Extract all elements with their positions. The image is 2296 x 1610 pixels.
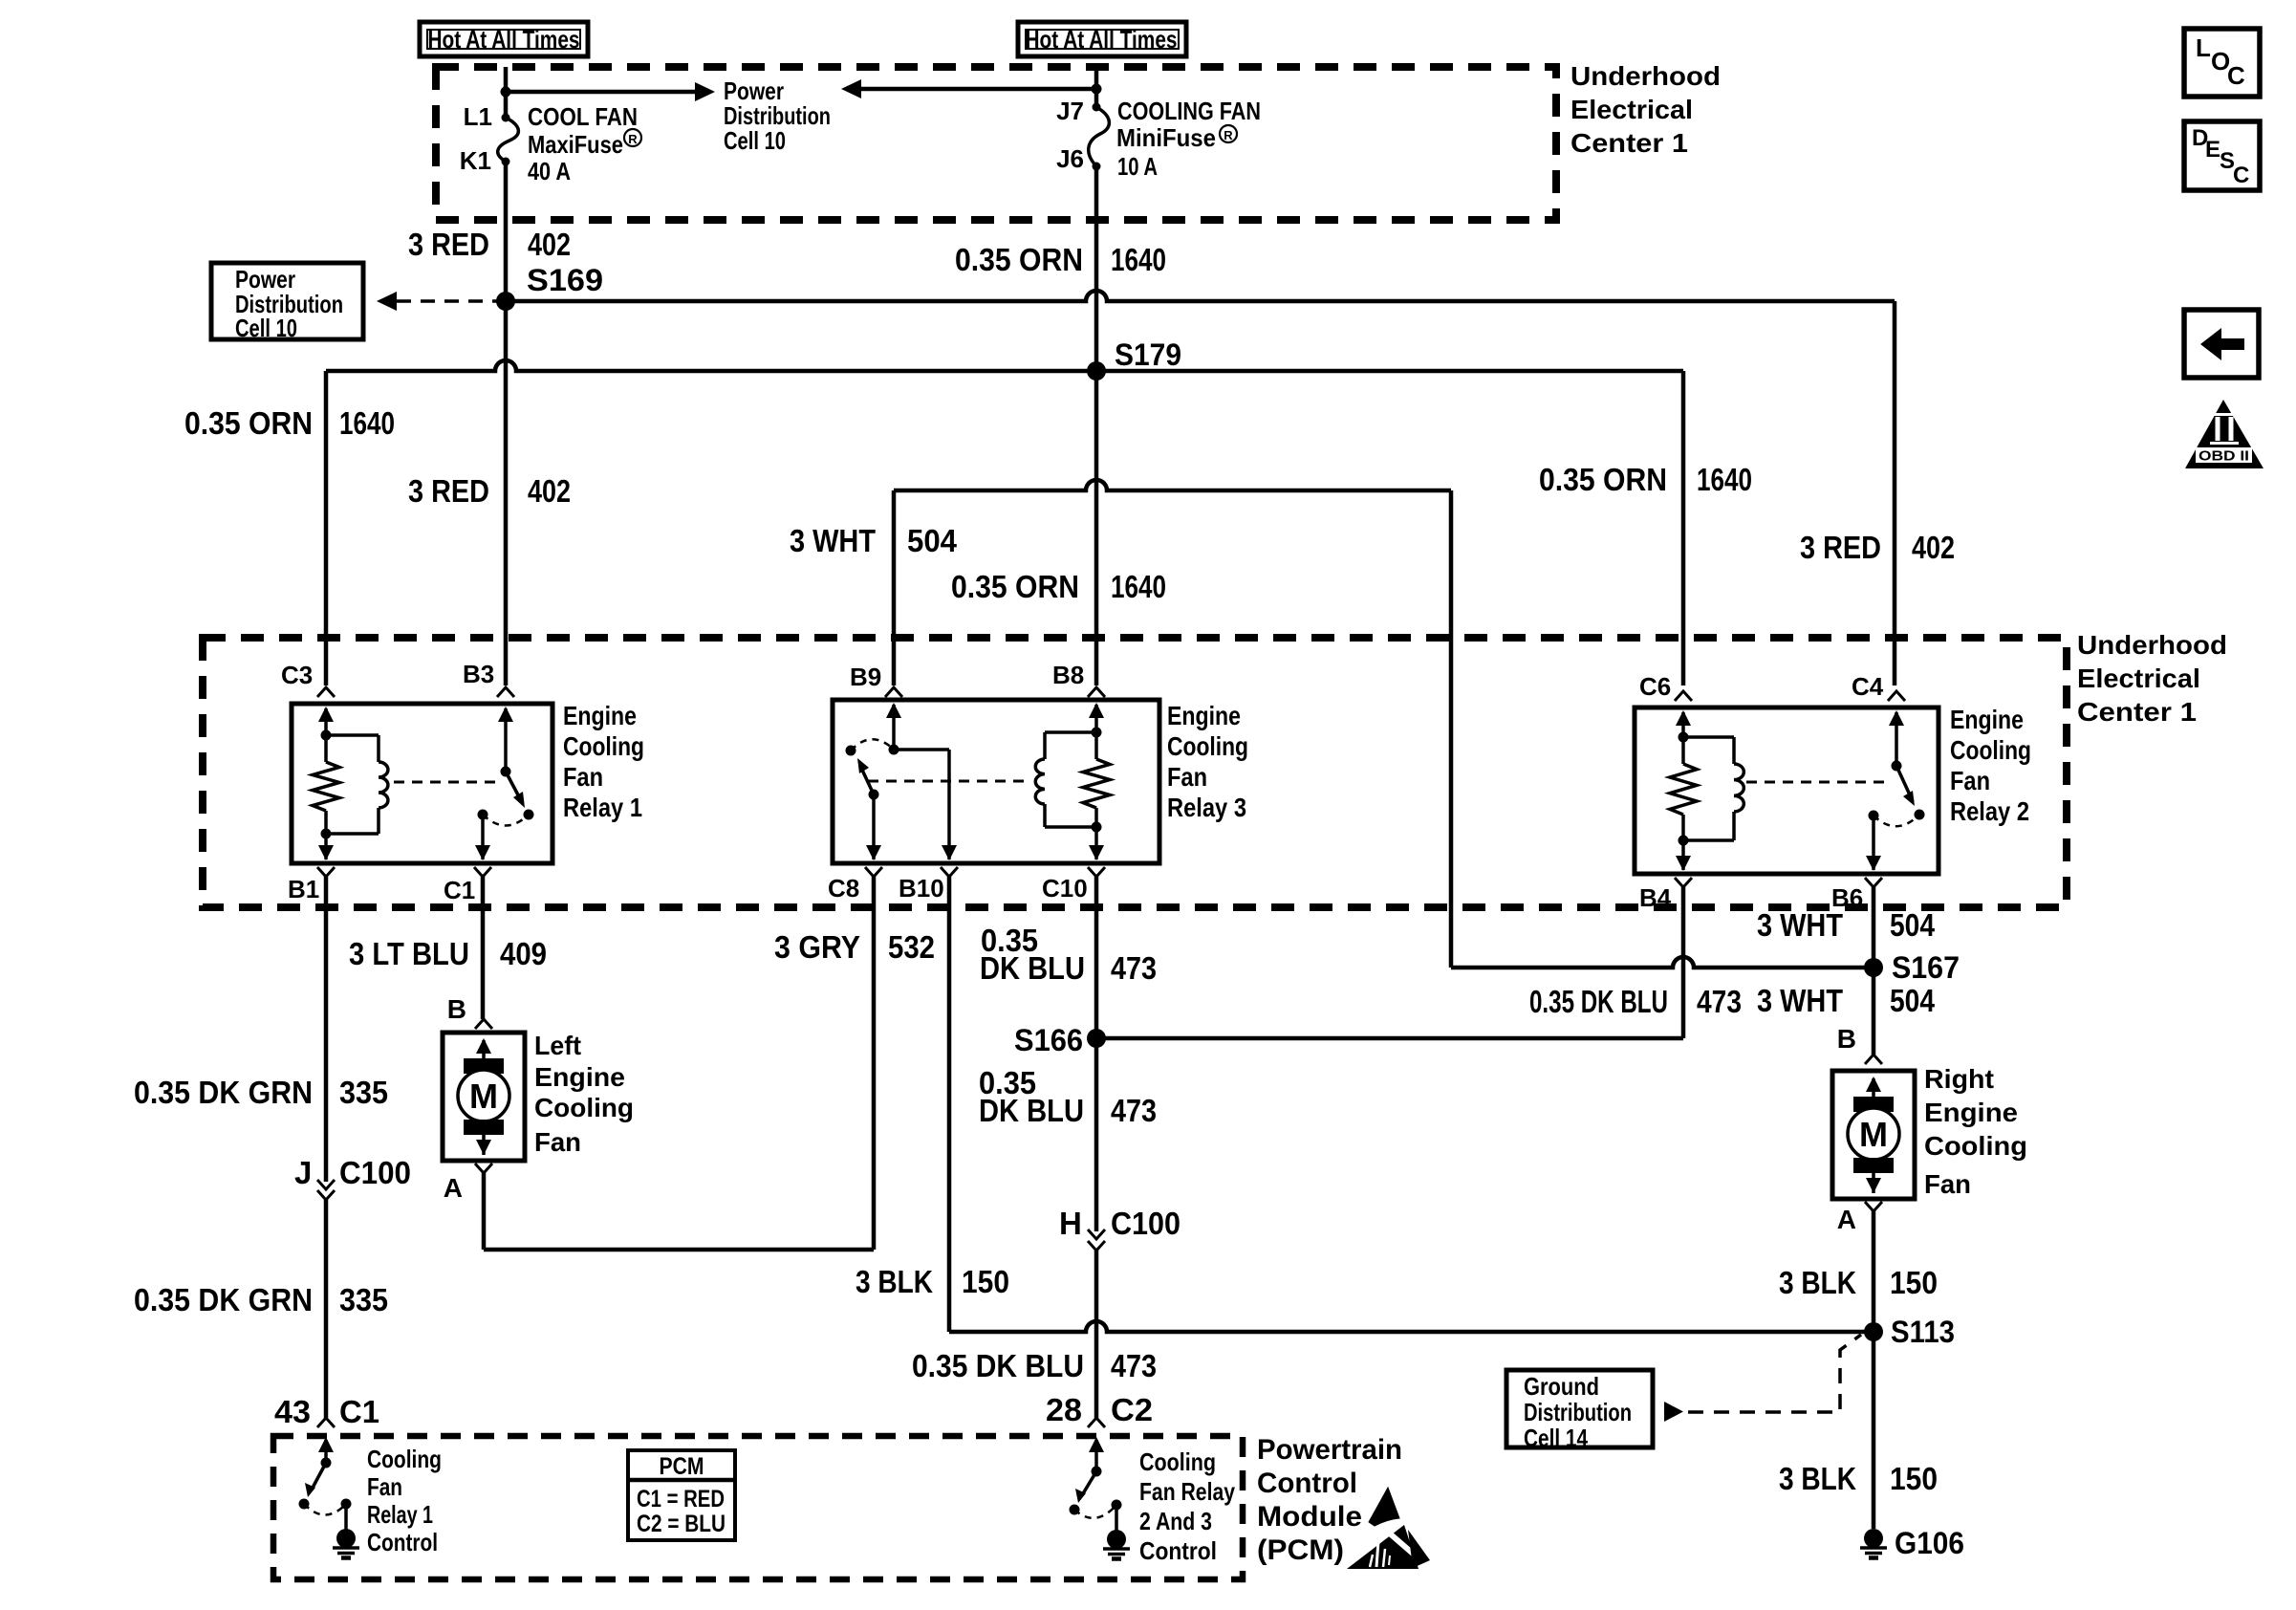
svg-text:C4: C4 (1852, 672, 1884, 701)
svg-text:Center 1: Center 1 (2077, 697, 2197, 727)
svg-text:Cell 10: Cell 10 (235, 314, 297, 342)
svg-text:C2 = BLU: C2 = BLU (637, 1511, 726, 1537)
svg-text:C: C (2233, 163, 2249, 188)
svg-text:0.35 ORN: 0.35 ORN (184, 405, 313, 441)
svg-text:3 RED: 3 RED (408, 473, 489, 509)
svg-text:Cooling: Cooling (1950, 735, 2031, 765)
svg-text:C1 = RED: C1 = RED (637, 1486, 725, 1512)
svg-text:C100: C100 (1111, 1206, 1180, 1241)
svg-text:2 And 3: 2 And 3 (1139, 1507, 1212, 1535)
svg-text:B8: B8 (1052, 661, 1084, 689)
svg-text:Center 1: Center 1 (1570, 128, 1688, 158)
svg-text:Cooling: Cooling (1139, 1447, 1216, 1476)
svg-text:J7: J7 (1056, 97, 1084, 125)
svg-text:B: B (1837, 1024, 1856, 1054)
svg-text:C2: C2 (1111, 1392, 1153, 1427)
svg-text:MaxiFuse: MaxiFuse (528, 130, 623, 159)
svg-text:S167: S167 (1892, 950, 1960, 985)
svg-text:L: L (2196, 33, 2211, 62)
svg-text:C: C (2227, 61, 2245, 90)
svg-text:3 GRY: 3 GRY (774, 929, 860, 965)
svg-text:3 WHT: 3 WHT (790, 523, 876, 558)
svg-text:Fan: Fan (367, 1472, 402, 1501)
svg-text:Fan: Fan (563, 762, 603, 792)
svg-text:0.35 DK GRN: 0.35 DK GRN (134, 1075, 313, 1110)
svg-text:B1: B1 (288, 875, 319, 903)
svg-text:0.35 DK BLU: 0.35 DK BLU (1529, 984, 1668, 1019)
svg-text:Powertrain: Powertrain (1257, 1434, 1402, 1466)
svg-text:Cooling: Cooling (1167, 731, 1248, 761)
svg-text:Cooling: Cooling (1924, 1131, 2027, 1161)
svg-text:473: 473 (1111, 1093, 1157, 1128)
svg-text:473: 473 (1111, 950, 1157, 986)
svg-text:A: A (1837, 1205, 1856, 1234)
svg-text:Underhood: Underhood (1570, 61, 1721, 91)
svg-text:Hot At All Times: Hot At All Times (428, 25, 580, 54)
svg-text:Cooling: Cooling (534, 1093, 634, 1122)
svg-text:Electrical: Electrical (1570, 95, 1693, 124)
svg-text:150: 150 (962, 1264, 1009, 1299)
svg-text:Fan: Fan (1950, 766, 1990, 795)
svg-text:3 RED: 3 RED (408, 227, 489, 262)
svg-text:3 BLK: 3 BLK (1779, 1461, 1856, 1496)
svg-text:504: 504 (1890, 907, 1936, 943)
svg-text:C6: C6 (1639, 672, 1671, 701)
svg-text:335: 335 (339, 1075, 388, 1110)
svg-text:(PCM): (PCM) (1257, 1534, 1344, 1566)
svg-text:C1: C1 (339, 1394, 379, 1429)
svg-text:H: H (1059, 1206, 1082, 1241)
svg-text:3 LT BLU: 3 LT BLU (349, 936, 469, 971)
svg-text:S113: S113 (1891, 1315, 1955, 1349)
svg-text:402: 402 (1912, 530, 1955, 565)
svg-text:3 RED: 3 RED (1800, 530, 1881, 565)
svg-text:Electrical: Electrical (2077, 664, 2200, 693)
svg-text:C8: C8 (828, 874, 859, 903)
svg-text:COOL FAN: COOL FAN (528, 102, 638, 131)
svg-text:0.35 ORN: 0.35 ORN (955, 242, 1083, 277)
svg-text:S169: S169 (527, 263, 603, 297)
svg-text:0.35 DK BLU: 0.35 DK BLU (912, 1348, 1084, 1383)
svg-text:Relay 3: Relay 3 (1167, 793, 1246, 822)
svg-text:0.35 ORN: 0.35 ORN (951, 569, 1079, 604)
svg-text:Cell 10: Cell 10 (724, 126, 786, 155)
svg-text:A: A (444, 1173, 463, 1203)
svg-text:B: B (447, 994, 466, 1024)
svg-text:Engine: Engine (1167, 701, 1241, 730)
svg-text:J6: J6 (1056, 144, 1084, 173)
svg-text:L1: L1 (464, 102, 492, 131)
svg-text:40 A: 40 A (528, 157, 571, 185)
svg-text:402: 402 (528, 227, 571, 262)
svg-text:Engine: Engine (563, 701, 637, 730)
svg-text:Hot At All Times: Hot At All Times (1026, 25, 1178, 54)
svg-text:532: 532 (888, 929, 935, 965)
svg-text:1640: 1640 (1697, 462, 1752, 497)
svg-text:C10: C10 (1042, 874, 1088, 903)
svg-text:Fan: Fan (1167, 762, 1207, 792)
svg-text:DK BLU: DK BLU (980, 950, 1085, 986)
svg-text:Distribution: Distribution (1524, 1398, 1632, 1426)
svg-text:Control: Control (367, 1528, 438, 1556)
svg-text:M: M (1859, 1115, 1888, 1154)
svg-text:S166: S166 (1014, 1023, 1083, 1057)
svg-text:MiniFuse: MiniFuse (1116, 123, 1216, 152)
svg-text:OBD II: OBD II (2199, 449, 2249, 465)
svg-text:Fan Relay: Fan Relay (1139, 1477, 1235, 1506)
svg-text:Control: Control (1257, 1468, 1357, 1499)
svg-text:473: 473 (1697, 984, 1742, 1019)
svg-text:Cooling: Cooling (563, 731, 644, 761)
svg-text:E: E (2205, 137, 2220, 163)
svg-text:504: 504 (1890, 983, 1936, 1018)
svg-text:409: 409 (500, 936, 547, 971)
svg-text:150: 150 (1890, 1461, 1938, 1496)
svg-text:3 BLK: 3 BLK (856, 1264, 933, 1299)
svg-text:J: J (294, 1155, 312, 1190)
svg-text:Module: Module (1257, 1501, 1362, 1533)
svg-text:B10: B10 (899, 874, 944, 903)
svg-text:Engine: Engine (1924, 1098, 2018, 1127)
svg-text:Relay 1: Relay 1 (367, 1500, 433, 1529)
svg-text:1640: 1640 (339, 405, 395, 441)
svg-text:Fan: Fan (1924, 1169, 1971, 1199)
svg-text:3 BLK: 3 BLK (1779, 1265, 1856, 1300)
svg-text:B4: B4 (1639, 883, 1672, 912)
svg-text:Control: Control (1139, 1536, 1217, 1565)
svg-text:Ground: Ground (1524, 1372, 1599, 1401)
svg-text:R: R (1224, 128, 1233, 142)
svg-text:10 A: 10 A (1117, 152, 1158, 181)
svg-text:Fan: Fan (534, 1127, 581, 1157)
svg-text:Engine: Engine (1950, 705, 2024, 734)
svg-text:C3: C3 (281, 661, 313, 689)
svg-text:Cooling: Cooling (367, 1445, 442, 1473)
svg-text:Left: Left (534, 1031, 581, 1060)
svg-text:COOLING FAN: COOLING FAN (1117, 97, 1261, 125)
svg-text:S179: S179 (1115, 337, 1181, 372)
svg-text:DK BLU: DK BLU (979, 1093, 1084, 1128)
svg-text:K1: K1 (460, 146, 491, 175)
svg-text:C1: C1 (444, 876, 475, 904)
svg-text:PCM: PCM (660, 1453, 704, 1480)
svg-text:0.35 ORN: 0.35 ORN (1539, 462, 1667, 497)
svg-text:0.35 DK GRN: 0.35 DK GRN (134, 1282, 313, 1317)
svg-text:B6: B6 (1831, 883, 1863, 912)
svg-text:G106: G106 (1895, 1526, 1964, 1560)
svg-text:335: 335 (339, 1282, 388, 1317)
svg-text:3 WHT: 3 WHT (1757, 983, 1843, 1018)
svg-text:1640: 1640 (1111, 569, 1166, 604)
svg-text:43: 43 (274, 1394, 311, 1429)
svg-text:473: 473 (1111, 1348, 1157, 1383)
svg-text:Relay 1: Relay 1 (563, 793, 642, 822)
svg-text:Cell 14: Cell 14 (1524, 1424, 1588, 1452)
svg-text:1640: 1640 (1111, 242, 1166, 277)
svg-text:402: 402 (528, 473, 571, 509)
svg-text:R: R (628, 132, 638, 146)
svg-text:Underhood: Underhood (2077, 630, 2227, 660)
svg-text:150: 150 (1890, 1265, 1938, 1300)
svg-text:B9: B9 (850, 663, 881, 691)
svg-text:B3: B3 (463, 660, 494, 688)
svg-text:M: M (469, 1077, 498, 1116)
svg-text:C100: C100 (339, 1155, 411, 1190)
svg-text:Engine: Engine (534, 1062, 625, 1092)
svg-text:Relay 2: Relay 2 (1950, 796, 2029, 826)
svg-text:3 WHT: 3 WHT (1757, 907, 1843, 943)
svg-text:504: 504 (907, 523, 958, 558)
svg-text:28: 28 (1046, 1392, 1082, 1427)
svg-text:Right: Right (1924, 1064, 1994, 1094)
